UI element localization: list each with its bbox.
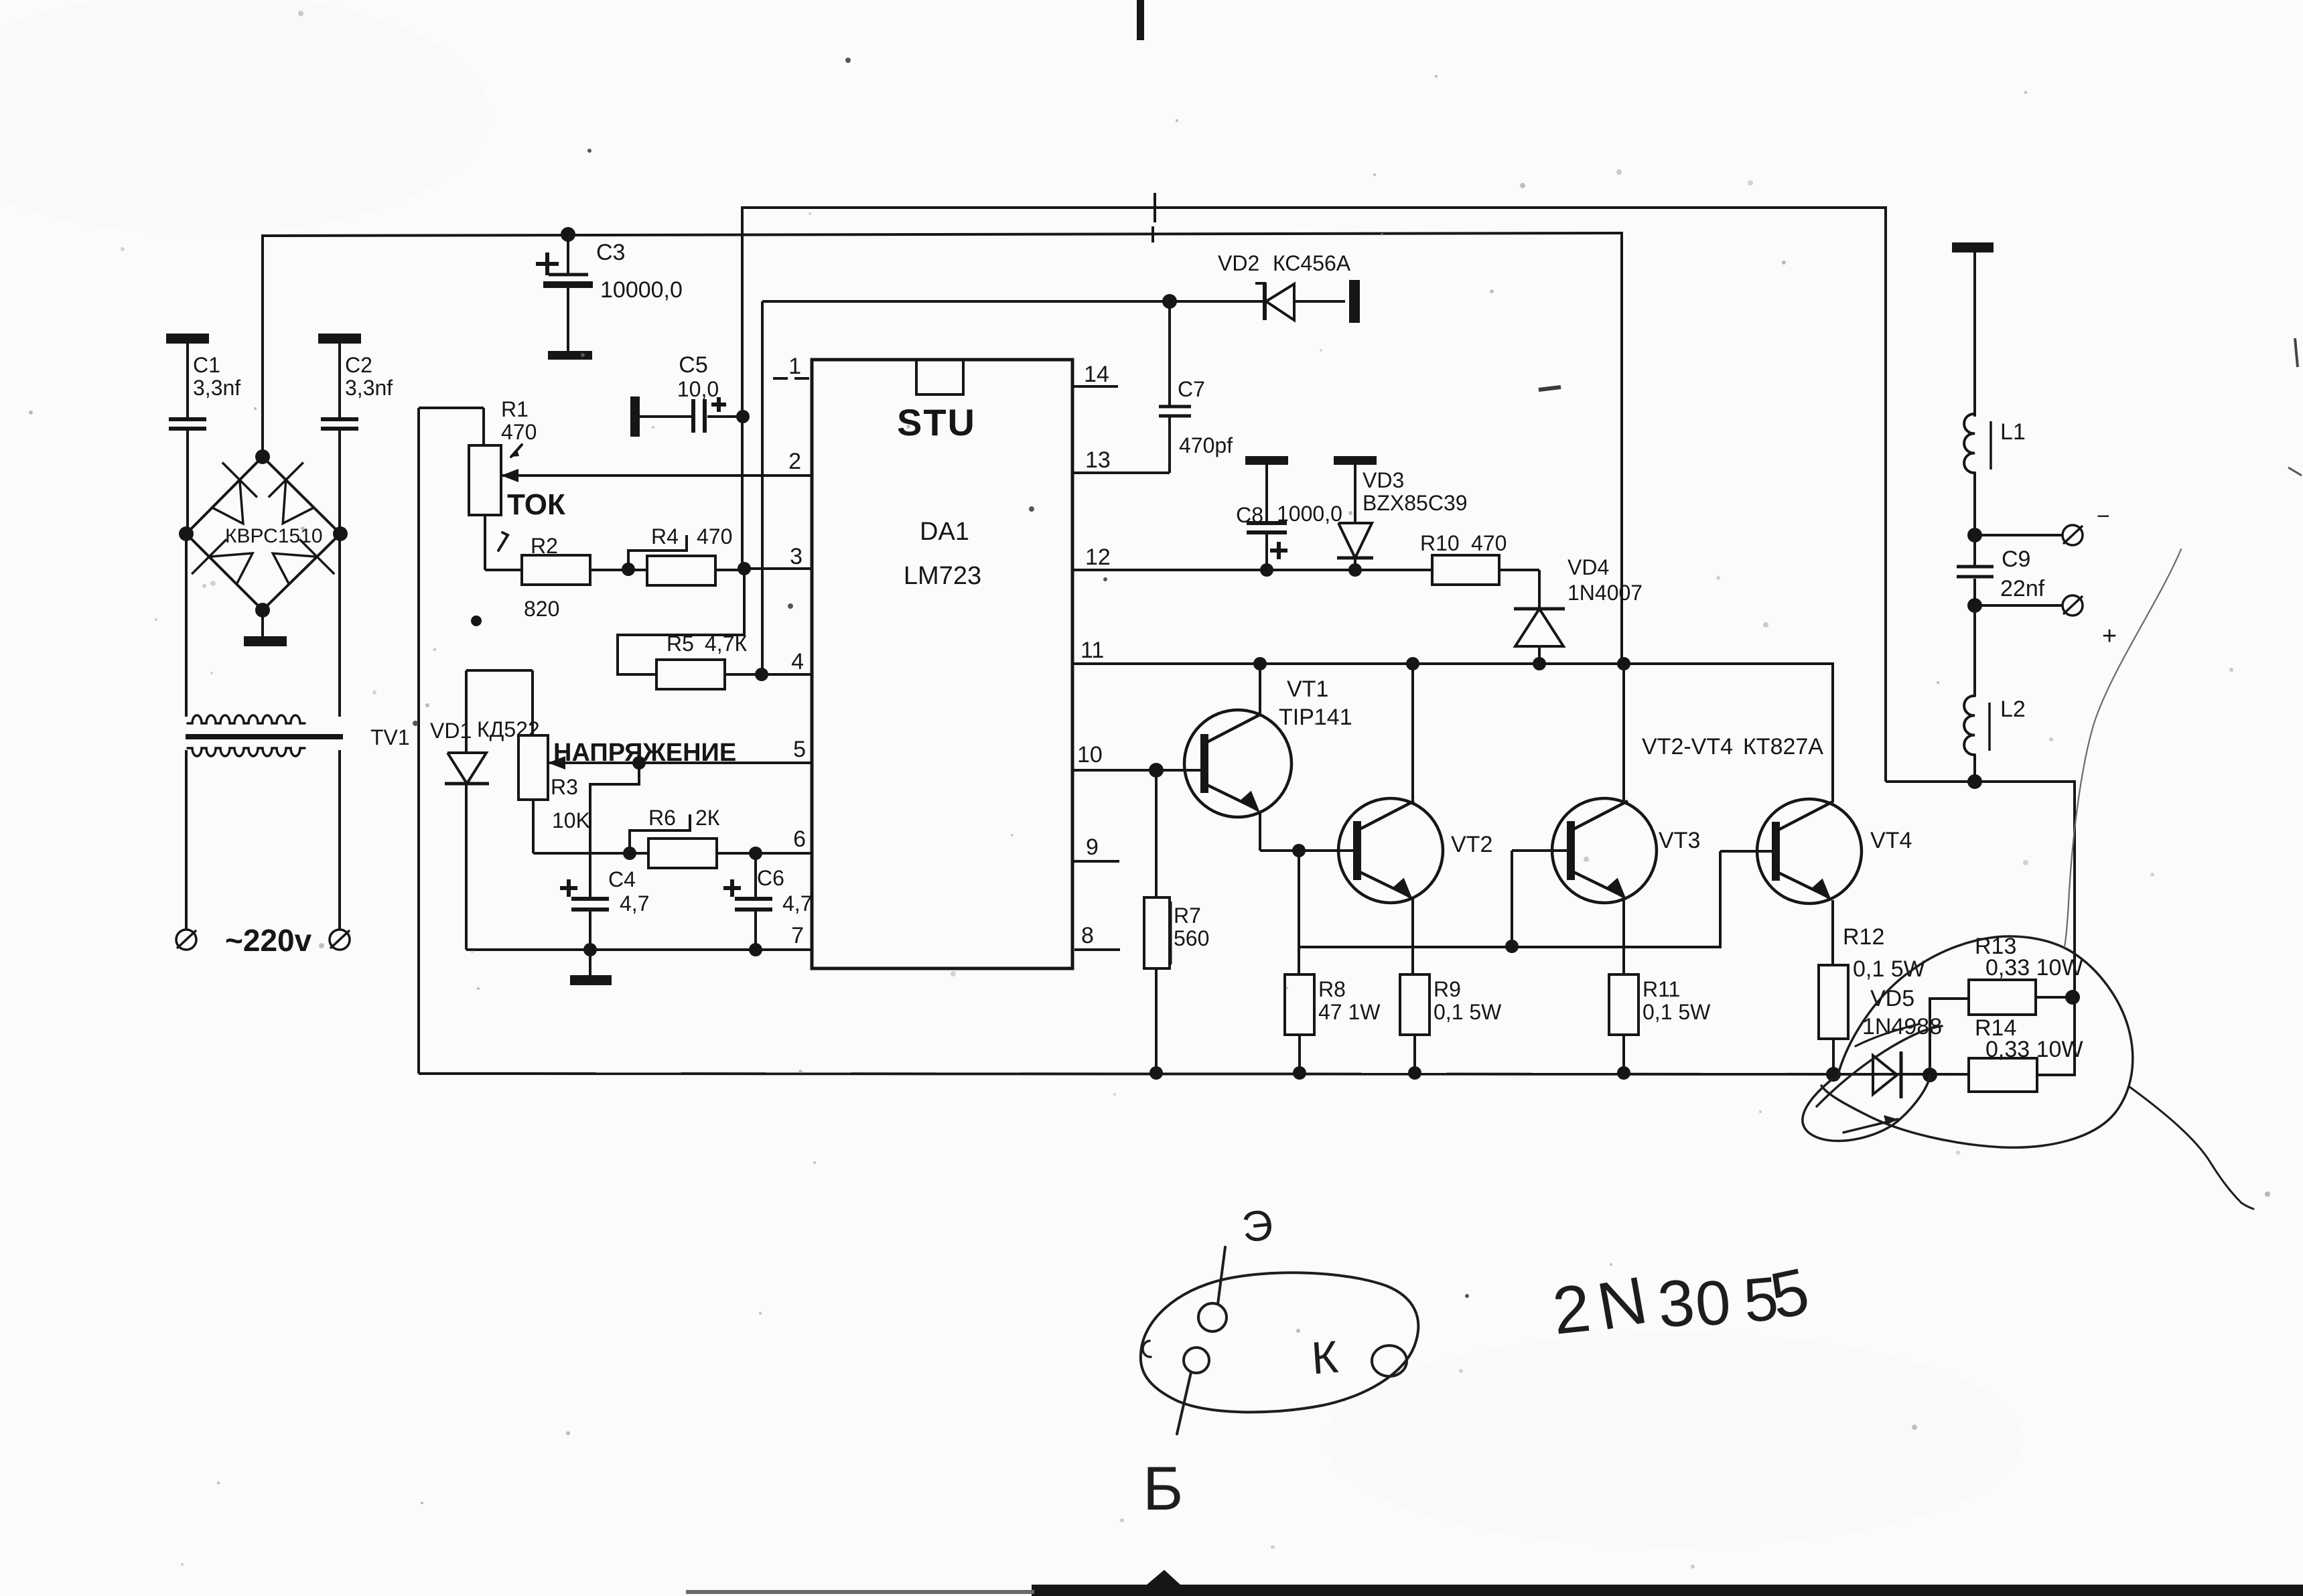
svg-text:C4: C4: [608, 867, 636, 891]
svg-text:0: 0: [1693, 1266, 1734, 1339]
svg-text:R8: R8: [1318, 977, 1346, 1001]
svg-text:3,3nf: 3,3nf: [345, 376, 393, 400]
svg-text:STU: STU: [897, 401, 976, 443]
svg-text:КВРС1510: КВРС1510: [225, 525, 323, 547]
svg-text:14: 14: [1084, 362, 1109, 387]
svg-text:R7: R7: [1174, 903, 1201, 928]
svg-text:LM723: LM723: [904, 562, 981, 590]
svg-text:КТ827А: КТ827А: [1743, 734, 1823, 759]
svg-text:C7: C7: [1178, 377, 1205, 401]
svg-text:C1: C1: [193, 353, 220, 377]
svg-text:VT3: VT3: [1659, 828, 1700, 853]
svg-text:C9: C9: [2002, 547, 2030, 572]
svg-text:1000,0: 1000,0: [1277, 502, 1342, 526]
svg-text:TV1: TV1: [370, 725, 410, 749]
svg-text:−: −: [2097, 504, 2110, 529]
svg-text:C3: C3: [596, 240, 625, 265]
svg-text:0,1 5W: 0,1 5W: [1643, 1000, 1711, 1024]
svg-text:R9: R9: [1434, 977, 1461, 1001]
svg-text:К: К: [1310, 1331, 1340, 1384]
svg-text:ТОК: ТОК: [507, 488, 565, 521]
svg-text:КС456А: КС456А: [1273, 251, 1351, 275]
svg-text:VT2: VT2: [1451, 832, 1492, 857]
svg-text:VD3: VD3: [1363, 468, 1404, 492]
svg-text:4: 4: [791, 649, 804, 674]
svg-text:10: 10: [1077, 742, 1103, 768]
svg-text:2К: 2К: [695, 806, 720, 830]
svg-text:C8: C8: [1236, 503, 1263, 527]
svg-text:3: 3: [790, 544, 802, 569]
svg-text:R4: R4: [651, 524, 679, 549]
svg-text:47 1W: 47 1W: [1318, 1000, 1381, 1024]
svg-text:DA1: DA1: [920, 518, 969, 546]
svg-text:4,7К: 4,7К: [705, 632, 747, 656]
svg-text:10,0: 10,0: [677, 377, 719, 401]
svg-text:С2: С2: [345, 353, 372, 377]
svg-text:~220v: ~220v: [225, 923, 312, 958]
svg-text:R10: R10: [1420, 531, 1460, 555]
svg-text:VD2: VD2: [1218, 251, 1259, 275]
svg-text:VD5: VD5: [1870, 986, 1914, 1011]
svg-text:1: 1: [788, 354, 801, 379]
svg-text:VD1: VD1: [430, 719, 472, 743]
svg-text:470: 470: [1471, 531, 1507, 555]
svg-text:470: 470: [697, 524, 732, 549]
svg-text:8: 8: [1081, 923, 1094, 948]
svg-text:+: +: [2102, 622, 2117, 650]
svg-text:560: 560: [1174, 926, 1209, 950]
svg-text:22nf: 22nf: [2000, 576, 2045, 601]
svg-text:Э: Э: [1239, 1200, 1275, 1251]
svg-text:R1: R1: [501, 397, 529, 421]
svg-text:КД522: КД522: [477, 717, 540, 741]
svg-text:3: 3: [1655, 1265, 1697, 1341]
svg-text:0,33 10W: 0,33 10W: [1985, 1037, 2083, 1062]
svg-text:L1: L1: [2000, 419, 2026, 445]
svg-text:2: 2: [1549, 1271, 1594, 1349]
svg-text:6: 6: [793, 826, 806, 852]
svg-text:TIP141: TIP141: [1279, 705, 1352, 730]
svg-text:12: 12: [1085, 545, 1111, 570]
svg-text:470: 470: [501, 420, 537, 444]
svg-text:R6: R6: [648, 806, 676, 830]
svg-text:VT2-VT4: VT2-VT4: [1642, 734, 1733, 759]
svg-text:820: 820: [524, 597, 559, 621]
svg-text:5: 5: [793, 737, 806, 762]
svg-text:3,3nf: 3,3nf: [193, 376, 240, 400]
svg-text:VT4: VT4: [1870, 828, 1912, 853]
svg-text:4,7: 4,7: [782, 891, 812, 916]
svg-text:R2: R2: [531, 534, 558, 558]
svg-text:470pf: 470pf: [1179, 433, 1233, 457]
svg-text:R12: R12: [1843, 924, 1884, 950]
svg-text:10K: 10K: [552, 808, 590, 832]
svg-text:R11: R11: [1643, 977, 1680, 1001]
svg-text:10000,0: 10000,0: [600, 277, 683, 303]
svg-text:BZX85C39: BZX85C39: [1363, 491, 1468, 515]
svg-text:9: 9: [1086, 835, 1099, 860]
svg-text:11: 11: [1080, 638, 1104, 663]
svg-text:2: 2: [788, 449, 801, 474]
svg-text:1N4007: 1N4007: [1567, 581, 1643, 605]
svg-text:VT1: VT1: [1287, 676, 1328, 702]
svg-text:C5: C5: [679, 352, 707, 378]
svg-text:Б: Б: [1143, 1455, 1183, 1523]
svg-text:VD4: VD4: [1567, 555, 1609, 579]
svg-text:0,1 5W: 0,1 5W: [1434, 1000, 1502, 1024]
svg-text:0,33 10W: 0,33 10W: [1985, 955, 2083, 981]
svg-text:13: 13: [1085, 447, 1111, 473]
svg-text:4,7: 4,7: [620, 891, 649, 916]
svg-text:L2: L2: [2000, 697, 2026, 722]
svg-text:R5: R5: [667, 632, 694, 656]
svg-text:7: 7: [791, 923, 804, 948]
svg-text:С6: С6: [757, 866, 784, 890]
svg-text:R3: R3: [551, 775, 578, 799]
